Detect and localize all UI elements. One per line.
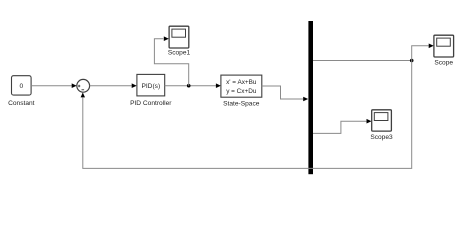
scope block Scope1 (169, 26, 189, 48)
svg-text:0: 0 (19, 83, 23, 90)
mux bar (308, 21, 313, 174)
svg-text:y = Cx+Du: y = Cx+Du (226, 88, 257, 95)
svg-text:Scope3: Scope3 (370, 134, 393, 141)
scope block Scope3 (372, 110, 392, 131)
minus sign (82, 89, 85, 91)
svg-text:Scope1: Scope1 (168, 49, 191, 56)
svg-text:PID Controller: PID Controller (130, 100, 172, 107)
wire branch up to Scope (412, 46, 429, 61)
wire state-space to mux bar (262, 86, 304, 99)
wire PID to state-space (165, 85, 217, 87)
junction dot branch to Scope1 (187, 84, 191, 88)
arrowhead into PID (132, 83, 137, 88)
svg-text:x' = Ax+Bu: x' = Ax+Bu (226, 79, 257, 86)
wire branch up-left to Scope1 (154, 39, 188, 86)
svg-text:Scope: Scope (434, 60, 453, 67)
sum junction circle (77, 79, 90, 92)
svg-text:PID(s): PID(s) (141, 83, 160, 90)
state-space block (221, 75, 262, 97)
arrowhead into state-space (216, 83, 221, 88)
PID controller block U1 (137, 74, 165, 96)
plus sign (78, 85, 80, 87)
scope block Scope (434, 35, 454, 57)
svg-text:Constant: Constant (8, 100, 35, 107)
junction dot near Scope (410, 59, 414, 63)
arrowhead into Scope (429, 44, 434, 49)
feedback wire down and left to sum (83, 61, 412, 169)
wire sum to PID (90, 85, 132, 87)
arrowhead into sum from below (81, 92, 85, 97)
svg-text:State-Space: State-Space (223, 101, 260, 108)
wire bar to Scope3 (313, 121, 366, 133)
arrowhead into sum (72, 83, 77, 88)
wire bar to scope junction (313, 60, 412, 62)
arrowhead into Scope1 (164, 36, 169, 41)
arrowhead into mux bar (303, 97, 308, 102)
constant block "0" (12, 76, 32, 95)
arrowhead into Scope3 (367, 119, 372, 124)
wire constant to sum (31, 85, 72, 87)
